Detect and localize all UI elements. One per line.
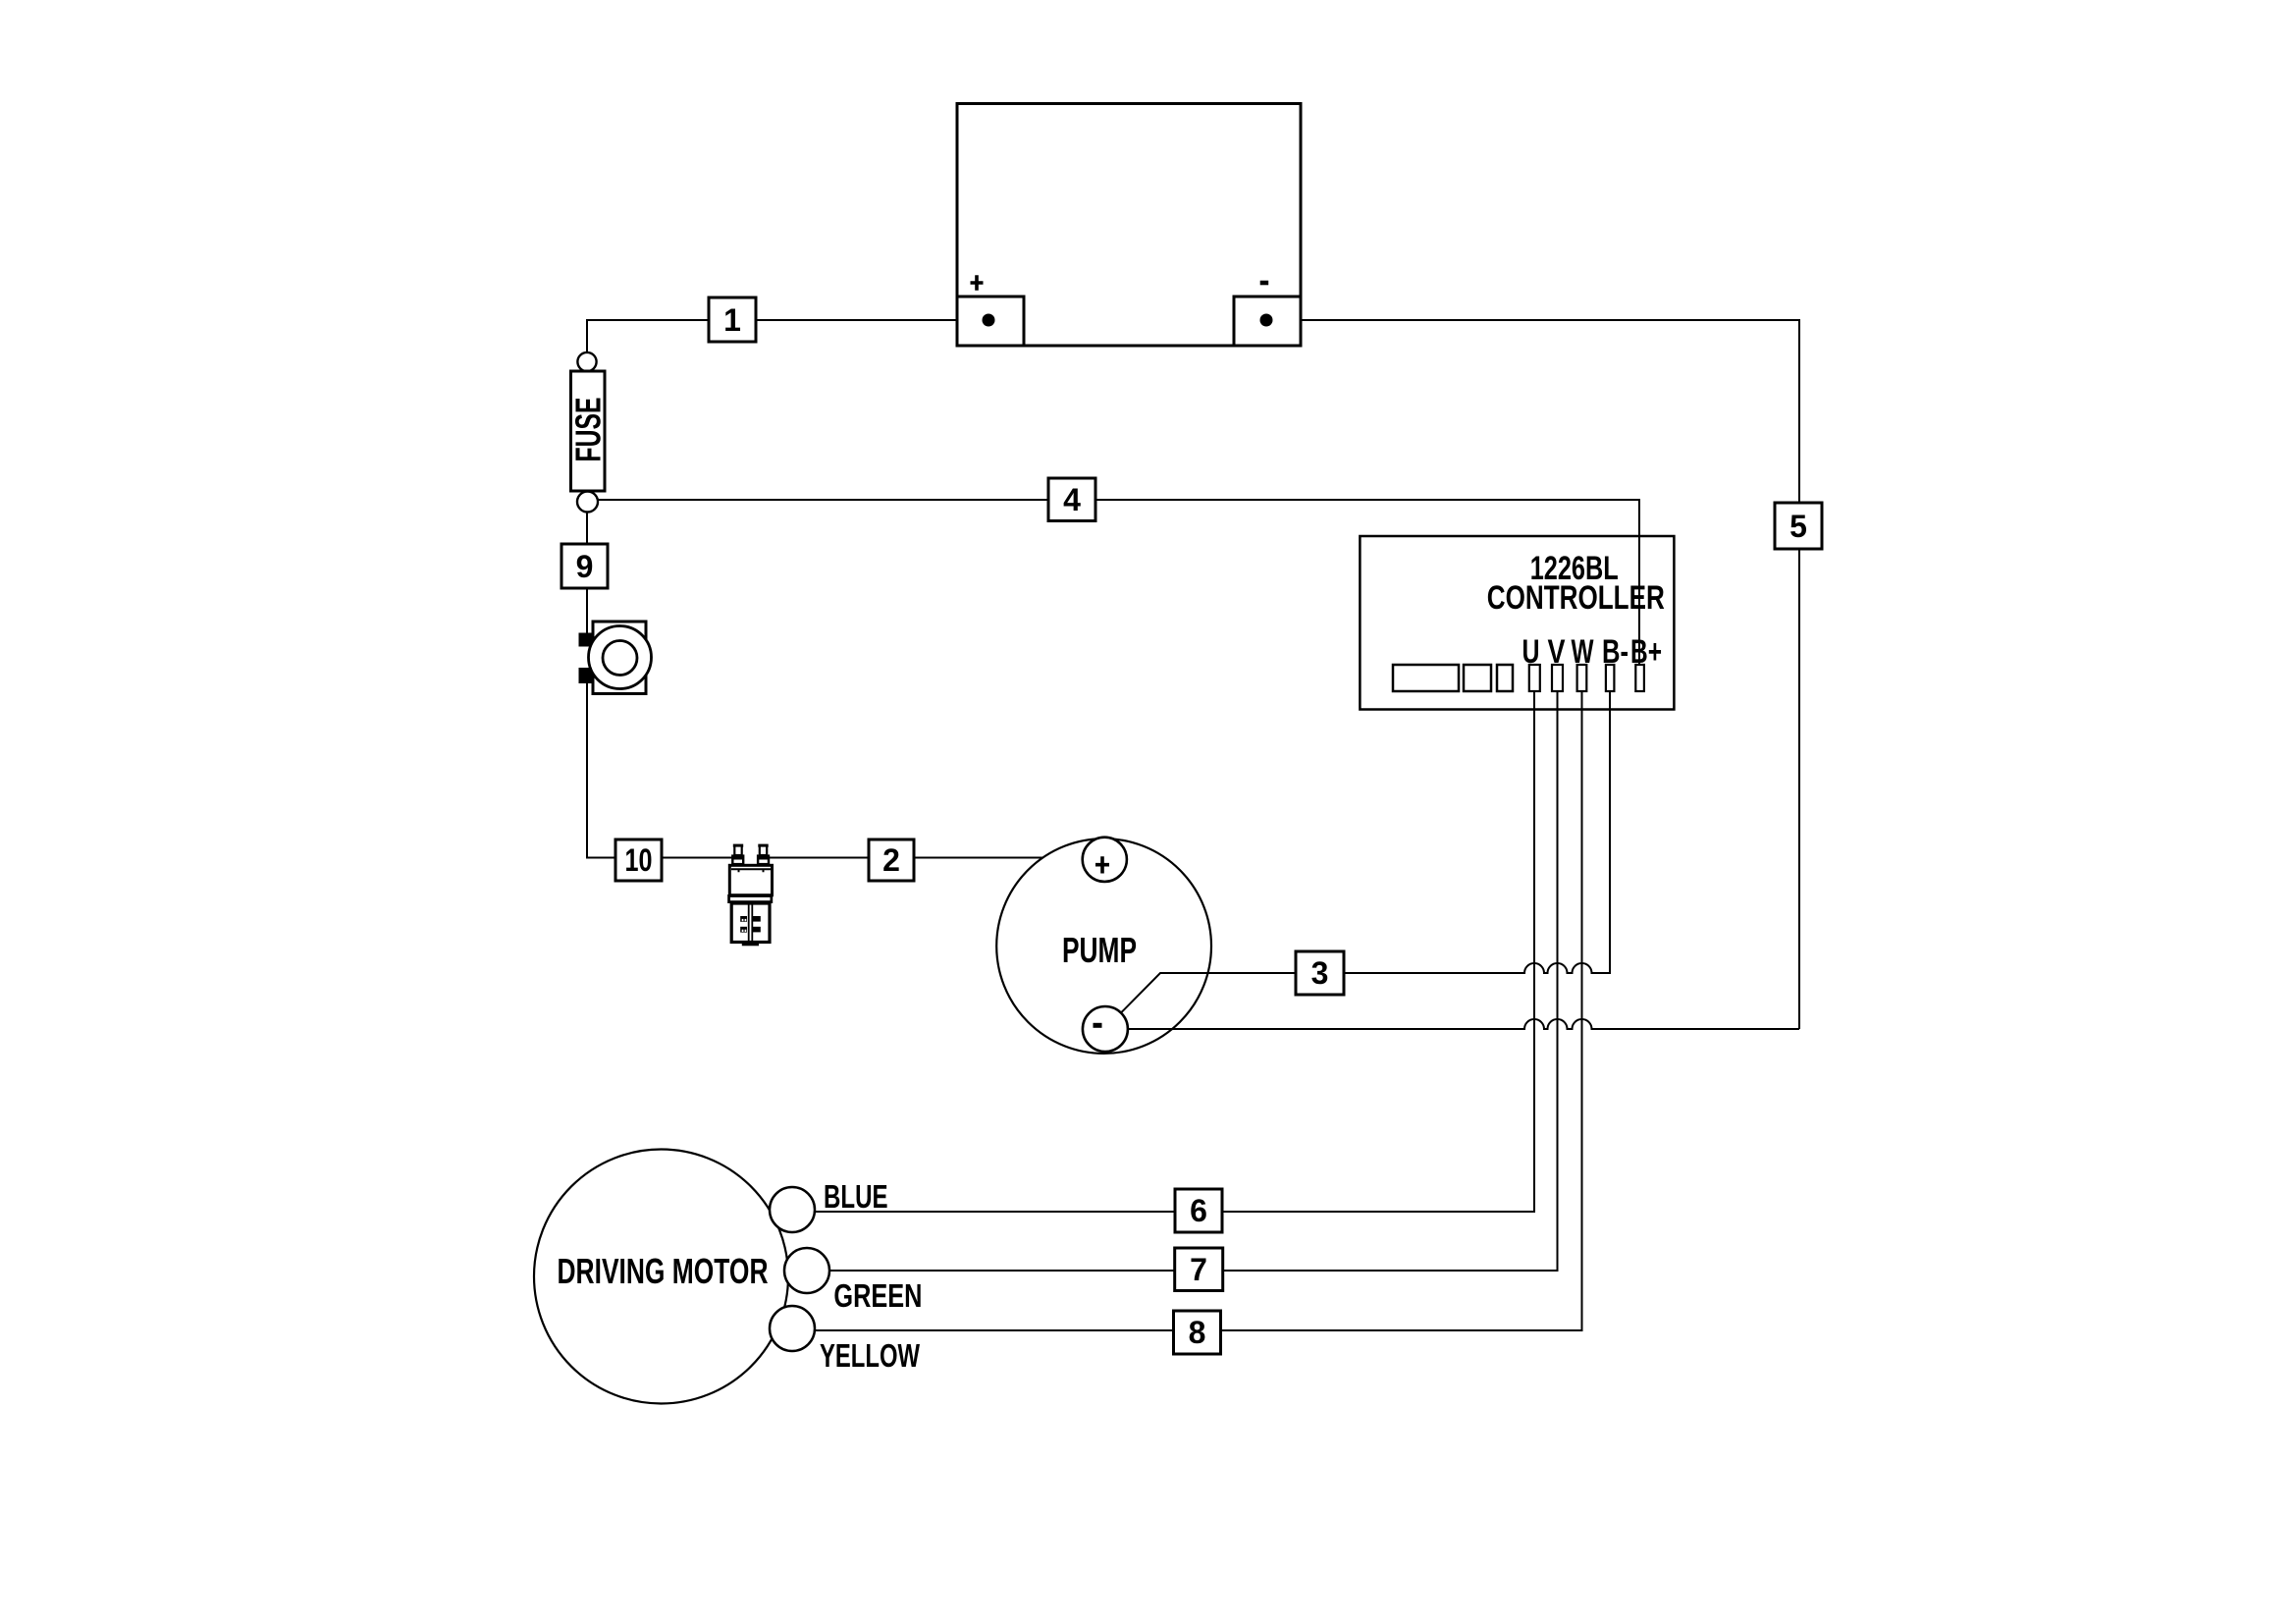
contactor bbox=[727, 844, 773, 947]
wire 1 (battery + to fuse) bbox=[587, 320, 988, 352]
wire label box 10 bbox=[615, 839, 662, 881]
wire label box 7 bbox=[1175, 1248, 1223, 1291]
battery negative terminal bbox=[1234, 283, 1301, 346]
wire V (controller V to motor green, via label 7) bbox=[828, 691, 1558, 1271]
svg-text:FUSE: FUSE bbox=[568, 398, 609, 462]
pump positive terminal bbox=[1083, 838, 1127, 882]
pump negative wire (pump - to wire 5) bbox=[1127, 1019, 1799, 1029]
svg-text:CONTROLLER: CONTROLLER bbox=[1487, 579, 1665, 617]
svg-text:1: 1 bbox=[723, 302, 741, 338]
svg-text:4: 4 bbox=[1063, 482, 1081, 517]
wire 3 (pump - to controller B-, with hops) bbox=[1121, 691, 1610, 1013]
pump motor body bbox=[996, 839, 1211, 1054]
wire 4 (fuse to controller B+) bbox=[593, 500, 1639, 665]
wire label box 8 bbox=[1174, 1311, 1221, 1354]
pin V bbox=[1552, 665, 1563, 691]
svg-text:5: 5 bbox=[1789, 509, 1807, 544]
wire 9 (fuse to key switch) bbox=[586, 512, 588, 634]
svg-text:2: 2 bbox=[882, 842, 900, 878]
svg-text:YELLOW: YELLOW bbox=[820, 1337, 921, 1374]
fuse bbox=[568, 352, 609, 513]
wire U (controller U to motor blue, via label 6) bbox=[814, 691, 1534, 1212]
motor terminal GREEN bbox=[784, 1248, 829, 1293]
wire label box 5 bbox=[1775, 503, 1822, 549]
wire label box 4 bbox=[1048, 478, 1095, 521]
svg-text:GREEN: GREEN bbox=[833, 1277, 922, 1314]
svg-text:8: 8 bbox=[1189, 1315, 1206, 1350]
svg-text:6: 6 bbox=[1190, 1193, 1207, 1228]
svg-text:DRIVING MOTOR: DRIVING MOTOR bbox=[558, 1251, 769, 1291]
wire 10 (key switch to contactor) bbox=[587, 681, 738, 858]
wire label box 9 bbox=[561, 544, 608, 588]
pin B+ bbox=[1635, 665, 1644, 691]
svg-text:3: 3 bbox=[1311, 955, 1329, 991]
svg-text:10: 10 bbox=[625, 842, 653, 878]
pump negative terminal bbox=[1083, 1006, 1128, 1052]
wire label box 1 bbox=[709, 298, 756, 342]
wire label box 6 bbox=[1175, 1189, 1222, 1232]
controller 1226BL bbox=[1360, 536, 1674, 710]
pin B- bbox=[1606, 665, 1615, 691]
pin U bbox=[1529, 665, 1540, 691]
svg-text:7: 7 bbox=[1190, 1252, 1207, 1287]
pin W bbox=[1577, 665, 1587, 691]
battery positive terminal bbox=[957, 275, 1024, 346]
motor terminal YELLOW bbox=[770, 1306, 815, 1351]
driving motor bbox=[534, 1150, 788, 1404]
key switch bbox=[579, 622, 652, 694]
motor terminal BLUE bbox=[770, 1187, 815, 1232]
wire 5 (battery - down right side) bbox=[1266, 320, 1799, 1029]
svg-text:PUMP: PUMP bbox=[1062, 930, 1137, 970]
battery bbox=[957, 104, 1301, 347]
wire label box 2 bbox=[869, 839, 914, 881]
svg-text:BLUE: BLUE bbox=[824, 1178, 888, 1215]
svg-text:9: 9 bbox=[576, 549, 594, 584]
internal connector rectangles bbox=[1393, 665, 1459, 691]
wire W (controller W to motor yellow, via label 8) bbox=[814, 691, 1582, 1330]
wire label box 3 bbox=[1296, 951, 1344, 995]
wire 2 (contactor to pump +) bbox=[763, 857, 1090, 859]
